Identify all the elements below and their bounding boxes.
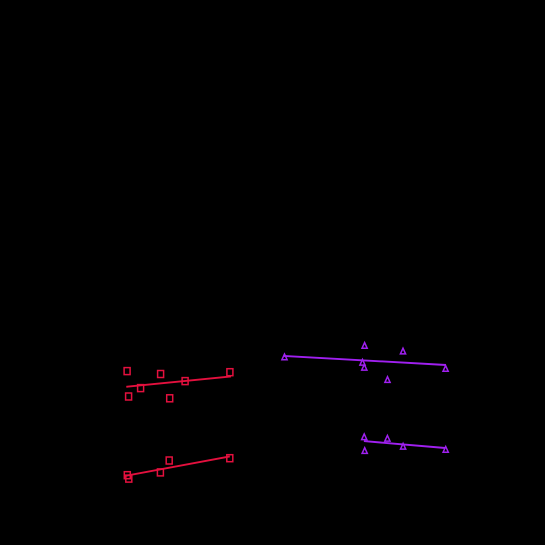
purple triangle point 7 (443, 366, 448, 372)
red square point 6 (167, 395, 173, 402)
red trend line upper (126, 376, 231, 386)
purple trend line lower (364, 441, 445, 448)
red square point 12 (227, 455, 233, 462)
purple triangle point 10 (401, 443, 406, 449)
purple triangle point 9 (385, 435, 390, 441)
red square point 2 (158, 371, 164, 378)
red square point 11 (166, 457, 172, 464)
purple triangle point 1 (282, 354, 287, 360)
red square point 5 (126, 393, 132, 400)
red square point 7 (227, 369, 233, 376)
purple triangle point 5 (362, 364, 367, 370)
purple triangle point 8 (362, 434, 367, 440)
purple triangle point 3 (400, 348, 405, 354)
red square point 8 (124, 472, 130, 479)
red square point 1 (124, 368, 130, 375)
purple trend line upper (284, 356, 446, 365)
purple triangle point 12 (443, 447, 448, 453)
purple triangle point 2 (362, 343, 367, 349)
red square point 9 (126, 475, 132, 482)
purple triangle point 6 (385, 377, 390, 383)
red trend line lower (125, 456, 230, 476)
purple triangle point 4 (360, 359, 365, 365)
purple triangle point 11 (362, 448, 367, 454)
red square point 3 (182, 378, 188, 385)
red square point 10 (157, 469, 163, 476)
red square point 4 (138, 385, 144, 392)
